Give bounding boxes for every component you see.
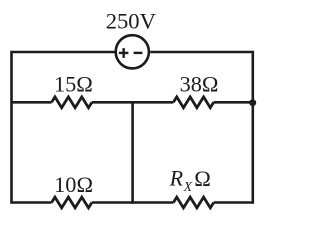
wire bottom-right lead <box>214 201 253 204</box>
wire right vertical <box>252 51 255 204</box>
wire middle horizontal center lead <box>92 101 173 104</box>
svg-text:10Ω: 10Ω <box>54 172 93 197</box>
voltage source plus sign <box>119 48 128 58</box>
wire left vertical <box>10 51 13 204</box>
voltage source minus sign <box>134 52 143 54</box>
wire middle vertical <box>131 102 134 204</box>
wire top-left segment <box>12 51 115 54</box>
svg-text:R: R <box>169 166 184 191</box>
svg-text:X: X <box>183 179 193 194</box>
svg-text:Ω: Ω <box>194 166 211 191</box>
resistor R1 15ohm zigzag <box>52 97 92 108</box>
resistor R3 10ohm zigzag <box>52 197 92 208</box>
wire bottom-left lead <box>12 201 52 204</box>
svg-text:250V: 250V <box>106 9 157 34</box>
node junction dot right <box>249 99 256 106</box>
resistor R4 RX zigzag <box>173 197 213 208</box>
wire middle horizontal left lead <box>12 101 52 104</box>
wire middle horizontal right lead <box>214 101 253 104</box>
svg-text:15Ω: 15Ω <box>54 71 93 96</box>
svg-text:38Ω: 38Ω <box>180 71 219 96</box>
voltage source V1 circle <box>116 35 149 68</box>
wire top-right segment <box>150 51 253 54</box>
wire bottom-center lead <box>92 201 173 204</box>
resistor R2 38ohm zigzag <box>173 97 213 108</box>
